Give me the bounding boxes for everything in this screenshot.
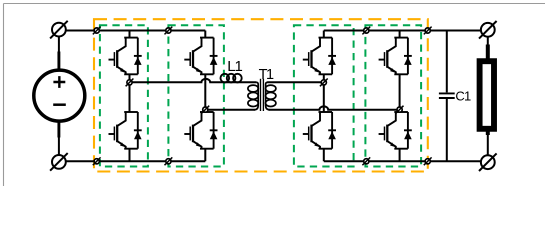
wire top rail left [66,30,206,32]
figure border top [4,3,546,5]
transistor Q8 with diode D8 [379,112,412,149]
green dashed box half-bridge leg 2 [168,25,224,166]
transistor Q4 with diode D4 [184,112,217,149]
voltage source V1 [34,70,85,121]
transistor Q1 with diode D1 [109,38,142,75]
load resistor R1 [480,61,494,129]
wire source bottom stub [57,120,60,137]
wire node A (leg1 mid to L1/transformer, hops leg2) [130,79,257,82]
junction node D [396,106,404,114]
transistor Q5 with diode D5 [303,38,336,75]
wire node D (transformer secondary bottom to leg4 mid, hops leg3) [268,106,399,109]
transistor Q6 with diode D6 [303,112,336,149]
orange dashed enclosure (both bridges) [94,19,428,171]
wire leg 2 verticals [204,31,206,162]
wire load bottom stub [486,131,490,135]
wire bottom rail right [324,160,481,162]
wire leg 3 verticals [323,31,325,162]
figure border left [3,4,5,187]
wire node B (leg2 mid to transformer primary bottom) [205,109,255,111]
transformer T1 secondary winding [266,82,276,110]
junction marker [93,27,101,35]
green dashed box half-bridge leg 3 [294,25,354,166]
junction marker [165,157,173,165]
terminal output - [479,153,497,171]
wire top rail right [324,30,481,32]
wire leg 4 verticals [399,31,401,162]
capacitor C1 [446,31,448,162]
wire source top stub [58,37,60,52]
transistor Q2 with diode D2 [109,112,142,149]
svg-text:C1: C1 [455,89,471,104]
terminal input + [50,21,68,39]
wire node C (transformer secondary top to leg3 mid) [267,81,324,83]
transistor Q7 with diode D7 [379,38,412,75]
wire leg 1 verticals [129,31,131,162]
transistor Q3 with diode D3 [184,38,217,75]
transformer T1 core [260,79,262,111]
junction node B [201,106,209,114]
green dashed box half-bridge leg 1 [100,25,148,166]
green dashed box half-bridge leg 4 [365,25,421,166]
svg-text:L1: L1 [227,58,242,75]
junction marker [424,27,432,35]
inductor L1 [221,74,242,83]
svg-text:T1: T1 [259,67,274,83]
junction node C [320,79,328,87]
junction node A [126,79,134,87]
terminal input - [50,153,68,171]
junction marker [93,157,101,165]
junction marker [362,157,370,165]
junction marker [362,27,370,35]
terminal output + [479,21,497,39]
junction marker [165,27,173,35]
wire load top stub [487,37,489,45]
junction marker [424,157,432,165]
transformer T1 primary winding [248,82,258,110]
wire bottom rail left [66,160,206,162]
